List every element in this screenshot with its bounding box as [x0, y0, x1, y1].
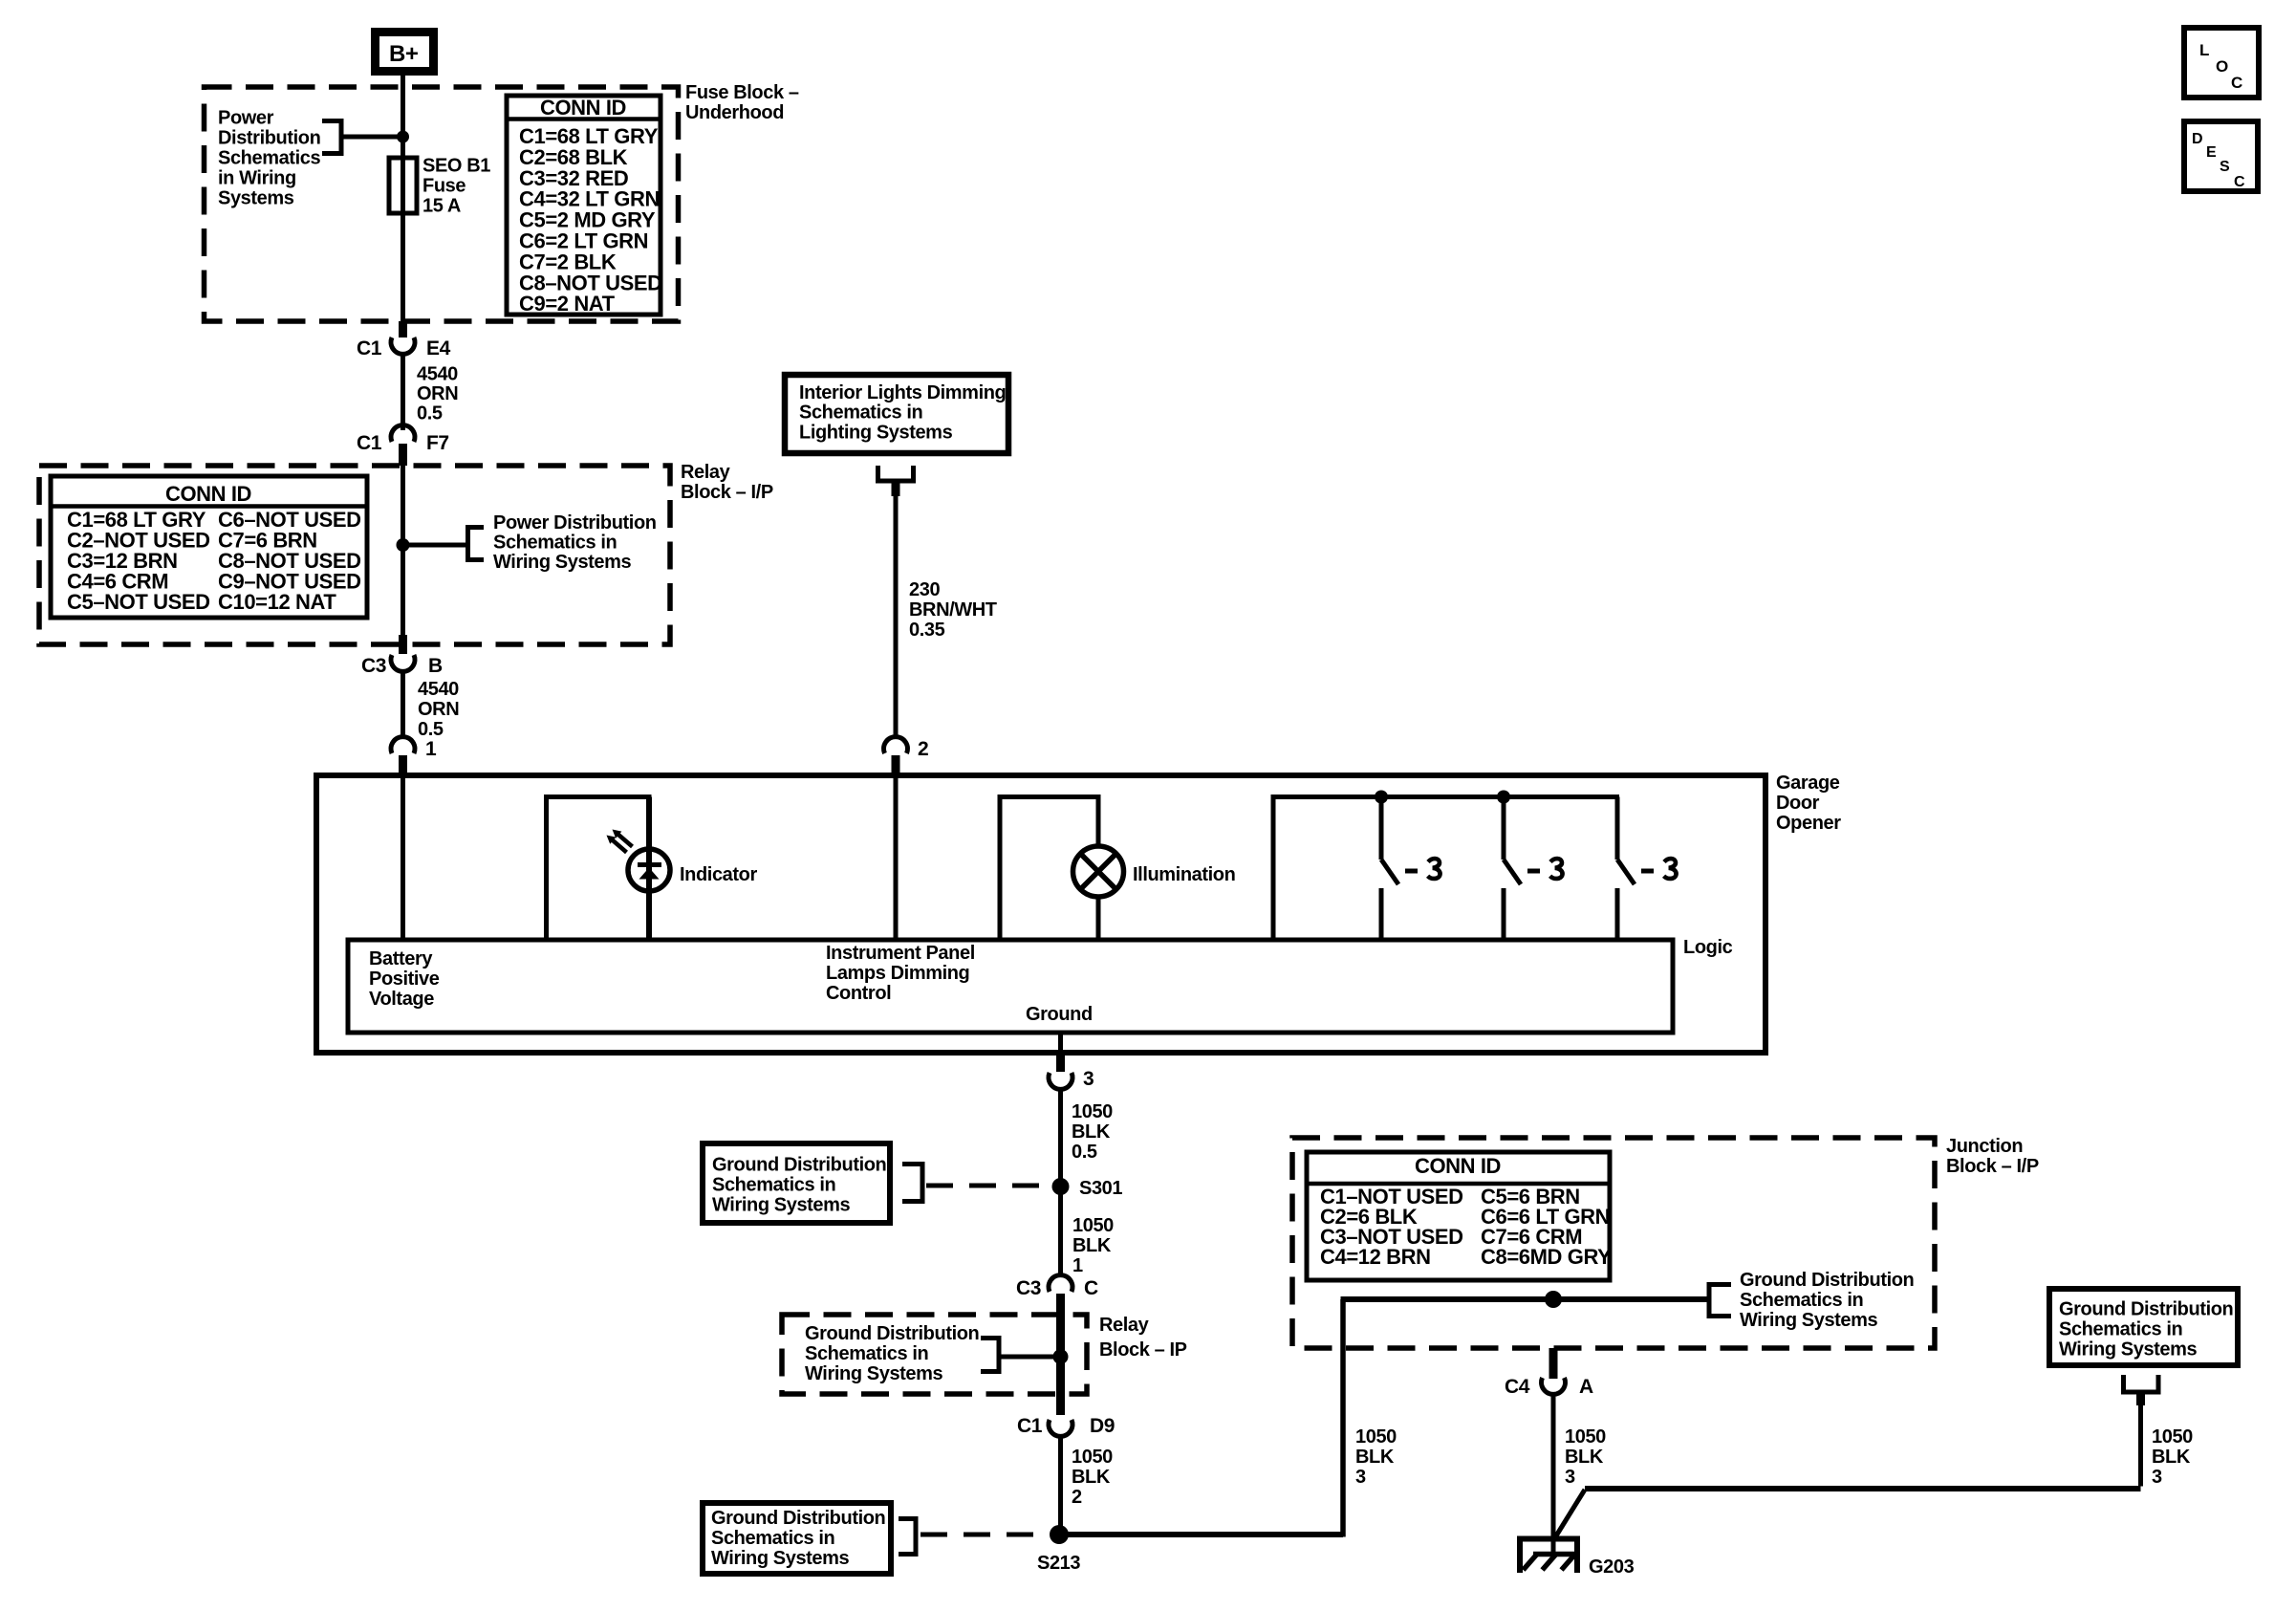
- svg-text:Positive: Positive: [369, 969, 440, 990]
- svg-text:Wiring Systems: Wiring Systems: [711, 1548, 850, 1569]
- svg-text:C10=12 NAT: C10=12 NAT: [218, 590, 336, 614]
- svg-text:Underhood: Underhood: [685, 102, 784, 123]
- svg-text:C: C: [2234, 174, 2245, 190]
- fuse block - underhood dashed box: [205, 87, 679, 321]
- illumination lamp L1 symbol: [1073, 846, 1124, 897]
- svg-text:0.5: 0.5: [418, 719, 444, 740]
- svg-text:3: 3: [1083, 1068, 1094, 1090]
- junction dot relay block tap: [397, 538, 410, 552]
- svg-text:CONN ID: CONN ID: [540, 96, 626, 120]
- svg-text:Fuse: Fuse: [422, 176, 466, 197]
- svg-text:BLK: BLK: [1072, 1121, 1111, 1143]
- connector C1 D9 relay block IP output: [1056, 1392, 1065, 1415]
- svg-text:Voltage: Voltage: [369, 989, 434, 1010]
- wire 1050 BLK 3 (right): [2138, 1405, 2143, 1487]
- thick wire through relay block IP: [1056, 1315, 1065, 1392]
- svg-text:Block – I/P: Block – I/P: [681, 482, 773, 503]
- svg-text:BLK: BLK: [1355, 1447, 1395, 1468]
- svg-text:Wiring Systems: Wiring Systems: [712, 1195, 851, 1216]
- wire fuse to connector C1 E4: [401, 213, 405, 321]
- svg-text:BLK: BLK: [1565, 1447, 1604, 1468]
- relay block - I/P dashed box: [39, 466, 670, 644]
- connector pin 1 garage door opener: [391, 737, 415, 753]
- diagonal wire to G203: [1555, 1490, 1585, 1537]
- connector pin 3 garage door opener ground: [1056, 1053, 1065, 1072]
- svg-text:Illumination: Illumination: [1133, 864, 1235, 885]
- svg-text:Wiring Systems: Wiring Systems: [805, 1363, 943, 1384]
- wire through relay block: [401, 466, 405, 635]
- svg-text:1: 1: [1072, 1255, 1083, 1276]
- svg-text:4540: 4540: [417, 364, 458, 385]
- indicator LED D1 symbol: [628, 849, 670, 891]
- svg-text:Garage: Garage: [1776, 773, 1840, 794]
- svg-text:O: O: [2216, 57, 2228, 76]
- svg-text:Ground Distribution: Ground Distribution: [2059, 1299, 2233, 1320]
- splice S213: [1050, 1525, 1069, 1544]
- svg-text:Schematics in: Schematics in: [805, 1343, 928, 1364]
- svg-text:ORN: ORN: [418, 699, 459, 720]
- svg-text:BRN/WHT: BRN/WHT: [909, 599, 997, 620]
- svg-text:Schematics in: Schematics in: [2059, 1319, 2182, 1340]
- svg-text:Ground Distribution: Ground Distribution: [1740, 1270, 1914, 1291]
- connector C1 F7 relay block input: [391, 425, 415, 442]
- svg-text:C1: C1: [357, 337, 382, 359]
- dashed link S213 reference: [921, 1533, 1044, 1537]
- junction dot junction block: [1545, 1291, 1562, 1308]
- bracket S301 reference: [921, 1162, 925, 1204]
- svg-text:Lighting Systems: Lighting Systems: [799, 422, 953, 443]
- connector C4 A junction block output: [1549, 1348, 1558, 1379]
- logic box: [348, 940, 1673, 1033]
- svg-text:Schematics: Schematics: [218, 148, 320, 169]
- svg-text:Schematics in: Schematics in: [711, 1528, 834, 1549]
- ground G203 symbol: [1517, 1536, 1580, 1542]
- svg-text:Indicator: Indicator: [680, 864, 757, 885]
- svg-text:Systems: Systems: [218, 188, 294, 209]
- LOC legend box: [2184, 28, 2259, 98]
- svg-text:E: E: [2206, 144, 2217, 161]
- svg-text:S213: S213: [1037, 1553, 1080, 1574]
- wire B+ to fuse SEO B1: [401, 76, 405, 161]
- svg-text:Power Distribution: Power Distribution: [493, 512, 657, 533]
- svg-text:BLK: BLK: [1072, 1235, 1112, 1256]
- junction dot switch rail 1: [1375, 791, 1388, 804]
- connector pin 2 garage door opener: [884, 737, 908, 753]
- wire 1050 BLK 1: [1058, 1192, 1063, 1275]
- svg-text:C3: C3: [361, 655, 386, 677]
- wire pin1 to logic (battery positive voltage): [401, 775, 405, 940]
- wire 4540 ORN 0.5 (E4 to F7): [401, 354, 405, 430]
- svg-text:G203: G203: [1589, 1557, 1635, 1578]
- wire 1050 BLK 3 (C4 A to G203): [1551, 1394, 1556, 1554]
- fuse SEO B1 15 A: [389, 158, 417, 213]
- wire 230 BRN/WHT 0.35: [894, 496, 899, 738]
- svg-text:BLK: BLK: [1072, 1467, 1111, 1488]
- svg-text:C4=12 BRN: C4=12 BRN: [1320, 1245, 1431, 1269]
- svg-text:2: 2: [918, 738, 928, 760]
- svg-text:Instrument Panel: Instrument Panel: [826, 943, 975, 964]
- svg-text:Schematics in: Schematics in: [799, 403, 922, 424]
- CONN ID table junction block: [1307, 1152, 1610, 1280]
- wire inside junction block: [1341, 1296, 1710, 1302]
- svg-text:1050: 1050: [1072, 1447, 1113, 1468]
- wire 4540 ORN 0.5 (B to pin 1): [401, 671, 405, 738]
- connector C3 C relay block IP input: [1049, 1275, 1072, 1292]
- svg-text:0.5: 0.5: [417, 403, 443, 425]
- svg-text:Battery: Battery: [369, 948, 433, 969]
- illumination lamp branch loop: [998, 797, 1003, 941]
- svg-text:Interior Lights Dimming: Interior Lights Dimming: [799, 382, 1006, 403]
- bracket below interior lights box: [876, 466, 880, 481]
- svg-text:Block – IP: Block – IP: [1099, 1339, 1187, 1361]
- junction dot relay block IP tap: [1053, 1349, 1069, 1364]
- svg-text:Logic: Logic: [1683, 937, 1733, 958]
- svg-text:3: 3: [2152, 1467, 2162, 1488]
- svg-text:Opener: Opener: [1776, 813, 1841, 834]
- svg-text:CONN ID: CONN ID: [1415, 1154, 1501, 1178]
- junction block - I/P dashed box: [1292, 1138, 1935, 1348]
- svg-text:F7: F7: [426, 432, 449, 454]
- svg-text:Wiring Systems: Wiring Systems: [1740, 1310, 1878, 1331]
- svg-text:1: 1: [425, 738, 437, 760]
- svg-text:in Wiring: in Wiring: [218, 168, 296, 189]
- svg-text:Wiring Systems: Wiring Systems: [493, 552, 632, 573]
- svg-text:4540: 4540: [418, 679, 459, 700]
- svg-text:ORN: ORN: [417, 383, 458, 404]
- svg-text:3: 3: [1355, 1467, 1366, 1488]
- relay block - IP dashed box (ground path): [782, 1315, 1087, 1394]
- svg-text:S301: S301: [1079, 1178, 1122, 1199]
- svg-text:C3: C3: [1016, 1277, 1041, 1299]
- svg-text:B: B: [428, 655, 443, 677]
- junction dot switch rail 2: [1497, 791, 1510, 804]
- svg-text:Ground Distribution: Ground Distribution: [711, 1508, 885, 1529]
- svg-text:CONN ID: CONN ID: [165, 482, 251, 506]
- junction dot power distribution tap: [397, 131, 409, 143]
- svg-text:Relay: Relay: [1099, 1315, 1150, 1336]
- connector C3 B relay block output: [399, 635, 407, 654]
- svg-text:Block – I/P: Block – I/P: [1946, 1156, 2039, 1177]
- bracket power distribution to wire: [322, 119, 341, 123]
- bracket ground distribution (junction block): [1707, 1282, 1712, 1318]
- garage door opener outer box: [316, 775, 1765, 1053]
- bracket ground distribution (relay block IP): [997, 1336, 1002, 1374]
- reference box Interior Lights Dimming Schematics in Lighting Systems: [785, 375, 1008, 453]
- wire 1050 BLK 2: [1058, 1436, 1063, 1535]
- svg-text:C: C: [1084, 1277, 1098, 1299]
- CONN ID table relay block: [51, 476, 367, 618]
- svg-text:0.5: 0.5: [1072, 1142, 1097, 1163]
- svg-text:Schematics in: Schematics in: [1740, 1290, 1863, 1311]
- svg-text:3: 3: [1565, 1467, 1575, 1488]
- svg-text:Fuse Block –: Fuse Block –: [685, 82, 799, 103]
- svg-text:C4: C4: [1505, 1376, 1530, 1398]
- splice S301: [1052, 1178, 1070, 1195]
- svg-text:SEO B1: SEO B1: [422, 156, 490, 177]
- svg-text:BLK: BLK: [2152, 1447, 2191, 1468]
- svg-text:Wiring Systems: Wiring Systems: [2059, 1339, 2198, 1361]
- reference box Ground Distribution Schematics (right): [2049, 1289, 2238, 1365]
- svg-text:D: D: [2192, 131, 2202, 147]
- svg-text:1050: 1050: [1072, 1101, 1113, 1122]
- svg-text:Schematics in: Schematics in: [712, 1175, 835, 1196]
- svg-text:Distribution: Distribution: [218, 128, 320, 149]
- svg-text:C5–NOT USED: C5–NOT USED: [67, 590, 210, 614]
- svg-text:E4: E4: [426, 337, 451, 359]
- svg-text:1050: 1050: [1355, 1426, 1397, 1448]
- svg-text:L: L: [2199, 41, 2209, 59]
- svg-text:A: A: [1579, 1376, 1593, 1398]
- svg-text:Power: Power: [218, 108, 274, 129]
- wire S213 to junction block: [1059, 1532, 1343, 1537]
- svg-text:Ground Distribution: Ground Distribution: [805, 1323, 979, 1344]
- connector C1 E4 fuse block output: [399, 321, 407, 337]
- svg-text:1050: 1050: [2152, 1426, 2193, 1448]
- svg-text:C8=6MD GRY: C8=6MD GRY: [1481, 1245, 1612, 1269]
- svg-text:2: 2: [1072, 1487, 1082, 1508]
- switch S2: [1502, 797, 1506, 860]
- svg-text:1050: 1050: [1565, 1426, 1606, 1448]
- switch rail wire: [1271, 797, 1276, 941]
- indicator LED branch loop: [544, 797, 549, 941]
- svg-text:S: S: [2220, 159, 2230, 175]
- svg-text:Relay: Relay: [681, 462, 731, 483]
- svg-text:15 A: 15 A: [422, 196, 461, 217]
- svg-text:0.35: 0.35: [909, 620, 945, 641]
- CONN ID table fuse block underhood: [507, 96, 661, 315]
- power symbol B+ battery positive: [371, 28, 438, 76]
- bracket below right reference box: [2121, 1375, 2126, 1392]
- svg-text:C9=2 NAT: C9=2 NAT: [519, 292, 616, 316]
- svg-text:1050: 1050: [1072, 1215, 1114, 1236]
- wire 1050 BLK 0.5: [1058, 1089, 1063, 1181]
- svg-text:Door: Door: [1776, 793, 1820, 814]
- svg-text:Junction: Junction: [1946, 1136, 2023, 1157]
- svg-text:Ground: Ground: [1026, 1004, 1093, 1025]
- svg-text:Schematics in: Schematics in: [493, 533, 617, 554]
- svg-text:230: 230: [909, 579, 940, 600]
- reference box Ground Distribution Schematics (S213): [703, 1503, 891, 1574]
- svg-text:Lamps Dimming: Lamps Dimming: [826, 963, 969, 984]
- svg-text:C1: C1: [357, 432, 382, 454]
- svg-text:C1: C1: [1017, 1415, 1043, 1437]
- svg-text:D9: D9: [1090, 1415, 1115, 1437]
- LED light arrows: [618, 835, 633, 847]
- reference box Ground Distribution Schematics (S301): [703, 1143, 890, 1223]
- svg-text:C: C: [2231, 74, 2242, 92]
- bracket S213 reference: [914, 1516, 919, 1557]
- wire pin2 to logic (instrument panel lamps dimming control): [894, 775, 899, 940]
- svg-text:Control: Control: [826, 983, 891, 1004]
- bracket power distribution schematics (relay block): [466, 525, 470, 562]
- svg-text:Ground Distribution: Ground Distribution: [712, 1155, 886, 1176]
- dashed link S301 reference: [926, 1184, 1050, 1188]
- switch S3: [1615, 797, 1620, 860]
- DESC legend box: [2184, 121, 2258, 191]
- svg-text:B+: B+: [389, 41, 419, 67]
- switch S1: [1379, 797, 1384, 860]
